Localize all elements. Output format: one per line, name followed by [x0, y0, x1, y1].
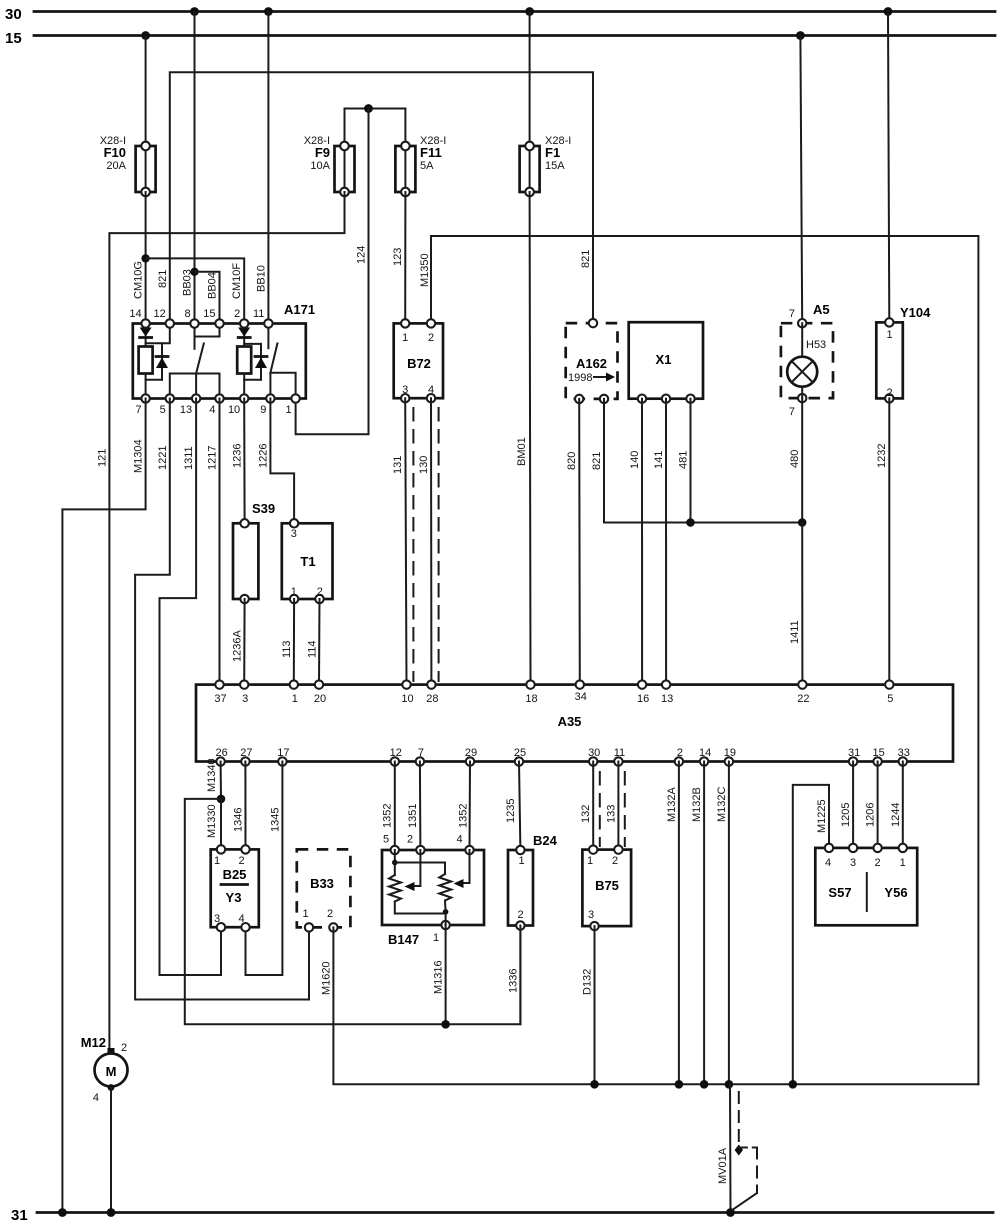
svg-text:M1225: M1225 [816, 799, 828, 833]
svg-text:M1340: M1340 [206, 758, 218, 792]
wire M1330 branch to lower rail [185, 799, 521, 1024]
svg-text:2: 2 [677, 747, 683, 759]
wire jog to A171 pin 2 CM10F [146, 258, 245, 323]
wire 1232 Y104 to A35 pin5 [876, 398, 889, 684]
svg-text:B24: B24 [533, 833, 558, 848]
svg-text:123: 123 [392, 248, 404, 266]
svg-text:12: 12 [390, 747, 402, 759]
component S39 [233, 501, 275, 603]
wire M1225 S57 pin4 to rail [789, 785, 830, 1089]
svg-text:7: 7 [789, 308, 795, 320]
A171 bottom pin labels [135, 404, 291, 416]
svg-text:1244: 1244 [890, 803, 902, 827]
component B72 [394, 319, 443, 402]
component T1 [282, 519, 333, 603]
svg-text:M1620: M1620 [320, 961, 332, 995]
svg-text:20: 20 [314, 693, 326, 705]
svg-text:19: 19 [724, 747, 736, 759]
svg-text:1232: 1232 [876, 444, 888, 468]
svg-text:1205: 1205 [840, 803, 852, 827]
svg-text:5A: 5A [420, 160, 434, 172]
svg-text:2: 2 [121, 1042, 127, 1054]
svg-text:2: 2 [407, 834, 413, 846]
svg-text:B25: B25 [223, 867, 247, 882]
wire 1336 B24 pin2 down [507, 926, 520, 1025]
svg-text:1: 1 [214, 855, 220, 867]
svg-text:1351: 1351 [407, 804, 419, 828]
svg-text:18: 18 [525, 693, 537, 705]
svg-text:3: 3 [402, 384, 408, 396]
wire bus15 to F10 [141, 31, 150, 146]
svg-text:13: 13 [661, 693, 673, 705]
svg-text:141: 141 [653, 451, 665, 469]
svg-text:A171: A171 [284, 302, 315, 317]
wire bus30 to Y104 pin 1 [884, 7, 893, 322]
A171 relay1 freewheel diode [146, 343, 168, 380]
fuse F10 [100, 135, 156, 196]
svg-text:A35: A35 [558, 714, 582, 729]
svg-text:2: 2 [612, 855, 618, 867]
wire 141 X1 to A35 pin13 [653, 399, 666, 685]
wire 1351 A35 pin7 to B147 pin2 [407, 762, 421, 851]
svg-text:130: 130 [418, 456, 430, 474]
wire M12 pin4 to bus31 [107, 1088, 116, 1217]
svg-text:1: 1 [433, 932, 439, 944]
B147 internal resistor 1 [389, 850, 446, 914]
shield dash line for 131 [412, 408, 414, 681]
wire M132C A35 pin19 to rail [716, 762, 733, 1089]
svg-text:1345: 1345 [269, 808, 281, 832]
svg-text:11: 11 [614, 747, 625, 759]
wire 133 A35 pin11 to B75 pin2 [605, 762, 618, 850]
svg-text:M12: M12 [81, 1035, 106, 1050]
svg-text:1: 1 [518, 855, 524, 867]
svg-text:26: 26 [215, 747, 227, 759]
svg-text:2: 2 [886, 387, 892, 399]
svg-text:34: 34 [575, 691, 587, 703]
motor M12 [81, 1035, 128, 1104]
wire CM10G F10 to A171 pin 14 [141, 192, 149, 324]
svg-text:16: 16 [637, 693, 649, 705]
wire bus15 to A5 pin 7 [796, 31, 805, 323]
wire 114 T1 pin2 to A35 pin20 [307, 599, 320, 685]
wire 113 T1 pin1 to A35 pin1 [281, 599, 294, 685]
svg-text:114: 114 [307, 640, 319, 658]
svg-text:7: 7 [135, 404, 141, 416]
svg-text:2: 2 [517, 909, 523, 921]
wire 130 B72 pin4 to A35 pin28 [418, 398, 431, 684]
svg-text:2: 2 [238, 855, 244, 867]
svg-text:113: 113 [281, 640, 293, 658]
fuse F9 [304, 135, 355, 196]
svg-text:20A: 20A [106, 160, 126, 172]
svg-text:481: 481 [678, 451, 690, 469]
svg-text:D132: D132 [582, 969, 594, 995]
svg-text:1: 1 [291, 586, 297, 598]
wire 121 F9 to M12 motor [96, 192, 344, 1048]
svg-text:1: 1 [285, 404, 291, 416]
bus 15 [5, 30, 995, 47]
A171 relay2 coil branch pin2 [238, 324, 250, 347]
svg-text:1236: 1236 [232, 444, 244, 468]
svg-text:BB04: BB04 [206, 272, 218, 299]
svg-text:1998: 1998 [568, 372, 592, 384]
fuse F11 [395, 135, 446, 196]
svg-text:4: 4 [93, 1092, 99, 1104]
svg-text:1: 1 [900, 857, 906, 869]
wire BM01 F1 to A35 pin 18 [516, 192, 531, 685]
svg-text:X1: X1 [656, 352, 672, 367]
B147 wiper arrow pin4 [454, 850, 470, 888]
svg-text:13: 13 [180, 404, 192, 416]
svg-text:Y3: Y3 [226, 890, 242, 905]
svg-text:1311: 1311 [183, 446, 195, 470]
A171 relay1 switch blade pin13 [170, 344, 220, 399]
svg-text:1346: 1346 [233, 808, 245, 832]
wire bus30 to fuse F1 [525, 7, 534, 146]
svg-text:3: 3 [214, 913, 220, 925]
svg-text:821: 821 [580, 250, 592, 268]
wire M1316 B147 pin1 to rail [433, 925, 450, 1029]
svg-text:2: 2 [428, 332, 434, 344]
svg-text:1217: 1217 [206, 446, 218, 470]
svg-text:M1330: M1330 [206, 804, 218, 838]
bus 30 [5, 6, 995, 23]
A171 relay2 fixed contact pin11 [267, 324, 269, 349]
svg-text:5: 5 [383, 834, 389, 846]
svg-text:3: 3 [291, 528, 297, 540]
wire 123 F11 to B72 pin 1 [392, 192, 405, 323]
svg-text:25: 25 [514, 747, 526, 759]
svg-text:5: 5 [887, 693, 893, 705]
svg-text:5: 5 [160, 404, 166, 416]
svg-text:4: 4 [456, 834, 462, 846]
A171 bottom pin circles [141, 394, 299, 402]
svg-text:30: 30 [588, 747, 600, 759]
svg-text:31: 31 [11, 1207, 28, 1223]
svg-text:MV01A: MV01A [717, 1147, 729, 1184]
svg-text:821: 821 [157, 270, 169, 288]
svg-text:B75: B75 [595, 878, 619, 893]
svg-text:7: 7 [418, 747, 424, 759]
svg-text:10: 10 [401, 693, 413, 705]
svg-text:1: 1 [302, 908, 308, 920]
wire 1352 A35 pin29 to B147 pin4 [457, 762, 470, 851]
wire M1340 A35 pin26 down [206, 758, 225, 803]
wire 140 X1 to A35 pin16 [629, 399, 642, 685]
wire 820 A162 to A35 pin34 [566, 399, 580, 685]
svg-text:3: 3 [242, 693, 248, 705]
A171 relay1 coil [139, 347, 153, 399]
svg-text:29: 29 [465, 747, 477, 759]
svg-text:2: 2 [234, 308, 240, 320]
svg-text:F9: F9 [315, 145, 330, 160]
svg-text:M132A: M132A [666, 786, 678, 822]
wire 1226 A171 pin9 to T1 pin3 [257, 399, 294, 524]
A171 relay1 fixed contact pin8/pin15 [195, 324, 220, 349]
component A162 dashed box [566, 319, 618, 403]
svg-text:M1350: M1350 [419, 253, 431, 287]
wire 1235 A35 pin25 to B24 pin1 [505, 762, 520, 851]
A171 relay2 switch blade pin9 pin1 [270, 344, 295, 399]
wire 1411 node to A35 pin22 [789, 523, 802, 685]
svg-text:2: 2 [874, 857, 880, 869]
svg-text:33: 33 [898, 747, 910, 759]
lamp H53 inside A5 [787, 323, 826, 398]
svg-text:1411: 1411 [789, 620, 801, 644]
svg-text:14: 14 [699, 747, 711, 759]
svg-text:M132C: M132C [716, 786, 728, 822]
svg-text:Y56: Y56 [884, 885, 907, 900]
A171 top pin circles [141, 319, 272, 327]
svg-text:M1316: M1316 [433, 960, 445, 994]
A171 relay1 coil branch pin14 [140, 324, 152, 347]
wire 1221 A171 pin5 to B33 pin1 [135, 399, 309, 1000]
wire 480 A5 to node [789, 398, 807, 527]
wire 481 X1 to lamp node [678, 399, 695, 527]
svg-text:1: 1 [292, 693, 298, 705]
A171 relay1 pin12 link [146, 324, 170, 344]
wire F9/F11 header with junction [345, 104, 406, 146]
svg-text:820: 820 [566, 452, 578, 470]
component X1 [629, 322, 703, 403]
component S57 / Y56 [815, 844, 917, 926]
svg-text:M132B: M132B [691, 787, 703, 822]
svg-text:T1: T1 [300, 554, 315, 569]
svg-text:480: 480 [789, 450, 801, 468]
svg-text:10: 10 [228, 404, 240, 416]
A35 bottom pin circles [216, 757, 907, 765]
wire 821 link A171 pin12 to A162 [170, 72, 593, 323]
svg-text:BM01: BM01 [516, 437, 528, 466]
svg-text:CM10G: CM10G [133, 261, 145, 299]
svg-text:F10: F10 [104, 145, 126, 160]
svg-text:133: 133 [605, 805, 617, 823]
svg-text:140: 140 [629, 451, 641, 469]
shield dash for 133 [624, 772, 626, 846]
component B147 [382, 834, 484, 948]
svg-text:1352: 1352 [457, 804, 469, 828]
relay box A171 [133, 302, 315, 399]
svg-text:4: 4 [428, 384, 434, 396]
svg-text:1: 1 [886, 329, 892, 341]
svg-text:15: 15 [5, 30, 22, 47]
svg-text:4: 4 [209, 404, 215, 416]
wire 1346 A35 pin27 to B25 pin2 [233, 762, 246, 850]
svg-text:14: 14 [129, 308, 141, 320]
bus 31 [11, 1207, 993, 1223]
svg-text:Y104: Y104 [900, 305, 931, 320]
svg-text:BB03: BB03 [182, 269, 194, 296]
svg-text:7: 7 [789, 406, 795, 418]
svg-text:121: 121 [96, 449, 108, 467]
wire 131 B72 pin3 to A35 pin10 [392, 398, 406, 684]
svg-text:15: 15 [872, 747, 884, 759]
wire M1304 A171 pin7 to bus31 [58, 399, 146, 1217]
svg-text:H53: H53 [806, 339, 826, 351]
svg-text:B33: B33 [310, 876, 334, 891]
svg-text:S39: S39 [252, 501, 275, 516]
svg-text:10A: 10A [310, 160, 330, 172]
svg-text:1: 1 [587, 855, 593, 867]
svg-text:1236A: 1236A [232, 630, 244, 662]
svg-text:B72: B72 [407, 356, 431, 371]
wire 124 from header to A171 pin 1 [296, 109, 369, 435]
svg-text:1: 1 [402, 332, 408, 344]
component B75 [582, 845, 631, 930]
svg-text:3: 3 [850, 857, 856, 869]
A35 top pin circles [215, 680, 893, 688]
wire bus30 to A171 pin 8 BB03 [190, 7, 199, 323]
wire M1330 node to B25 pin1 [206, 799, 221, 850]
svg-text:F1: F1 [545, 145, 560, 160]
component A5 dashed box [781, 302, 833, 418]
wire 1345 A35 pin17 to B25 pin4 [246, 762, 283, 976]
svg-text:1352: 1352 [382, 804, 394, 828]
svg-text:11: 11 [253, 308, 264, 320]
A171 top wire name labels [133, 261, 268, 299]
svg-text:A162: A162 [576, 356, 607, 371]
svg-text:M1304: M1304 [133, 439, 145, 473]
A35 top pin numbers [214, 691, 893, 705]
svg-text:132: 132 [580, 805, 592, 823]
svg-text:1226: 1226 [257, 444, 269, 468]
svg-text:12: 12 [154, 308, 166, 320]
component B33 dashed box [297, 849, 351, 931]
svg-text:A5: A5 [813, 302, 830, 317]
wire 1311 A171 pin13 to B25 pin3 [160, 399, 222, 976]
svg-text:131: 131 [392, 456, 404, 474]
svg-text:27: 27 [240, 747, 252, 759]
svg-text:9: 9 [260, 404, 266, 416]
wire 1205 A35 pin31 to S57 pin3 [840, 762, 853, 848]
shield dash line for 130 [438, 408, 440, 681]
control unit A35 [196, 685, 953, 762]
wire 132 A35 pin30 to B75 pin1 [580, 762, 593, 850]
wire jog to A171 pin 15 BB04 [195, 272, 220, 324]
svg-text:37: 37 [214, 693, 226, 705]
wire 1244 A35 pin33 to Y56 pin1 [890, 762, 903, 848]
svg-text:2: 2 [317, 586, 323, 598]
A171 relay2 freewheel diode [244, 344, 267, 380]
wire 1236A S39 to A35 pin3 [232, 599, 245, 685]
svg-text:15A: 15A [545, 160, 565, 172]
B147 internal resistor 2 [395, 863, 451, 926]
wire 1206 A35 pin15 to S57 pin2 [865, 762, 878, 848]
svg-text:4: 4 [238, 913, 244, 925]
wire 1217 A171 pin4 to A35 pin37 [206, 399, 219, 685]
svg-text:3: 3 [588, 909, 594, 921]
connector MV01A [717, 1092, 757, 1211]
component B25 / Y3 [211, 845, 259, 931]
svg-text:1336: 1336 [507, 969, 519, 993]
svg-text:2: 2 [327, 908, 333, 920]
svg-text:4: 4 [825, 857, 831, 869]
wire M132C continuation to bus31 [726, 1084, 735, 1217]
wire M132B A35 pin14 to rail [691, 762, 708, 1089]
A171 relay2 coil [237, 347, 251, 399]
wire 821 A162 to lamp node [591, 399, 802, 523]
svg-text:1221: 1221 [157, 446, 169, 470]
svg-text:31: 31 [848, 747, 860, 759]
wire M1350 B72 pin2 to right side down [419, 236, 978, 1084]
svg-text:F11: F11 [420, 145, 442, 160]
A35 bottom pin numbers [215, 747, 909, 759]
svg-text:BB10: BB10 [255, 265, 267, 292]
wire 1236 A171 pin10 to S39 [232, 399, 245, 524]
svg-text:B147: B147 [388, 932, 419, 947]
wire M1620 B33 pin2 to bottom rail [320, 927, 978, 1084]
svg-text:1206: 1206 [865, 803, 877, 827]
component B24 [508, 833, 558, 930]
svg-text:124: 124 [356, 246, 368, 264]
svg-text:30: 30 [5, 6, 22, 23]
svg-text:17: 17 [277, 747, 289, 759]
svg-text:821: 821 [591, 452, 603, 470]
A171 top pin labels [129, 308, 264, 320]
svg-text:CM10F: CM10F [231, 263, 243, 299]
shield dash for 132 [599, 772, 601, 846]
svg-text:8: 8 [184, 308, 190, 320]
svg-text:15: 15 [203, 308, 215, 320]
svg-text:22: 22 [797, 693, 809, 705]
wire bus30 to A171 pin 11 BB10 [264, 7, 273, 323]
svg-text:1235: 1235 [505, 799, 517, 823]
fuse F1 [520, 135, 572, 196]
B147 wiper arrow pin2 [405, 850, 421, 891]
wire D132 B75 pin3 to rail [582, 926, 599, 1089]
svg-text:M: M [106, 1064, 117, 1079]
svg-text:S57: S57 [828, 885, 851, 900]
wire M132A A35 pin2 to rail [666, 762, 683, 1089]
component Y104 [876, 305, 931, 403]
svg-text:28: 28 [426, 693, 438, 705]
wire 1352 A35 pin12 to B147 pin5 [382, 762, 395, 851]
